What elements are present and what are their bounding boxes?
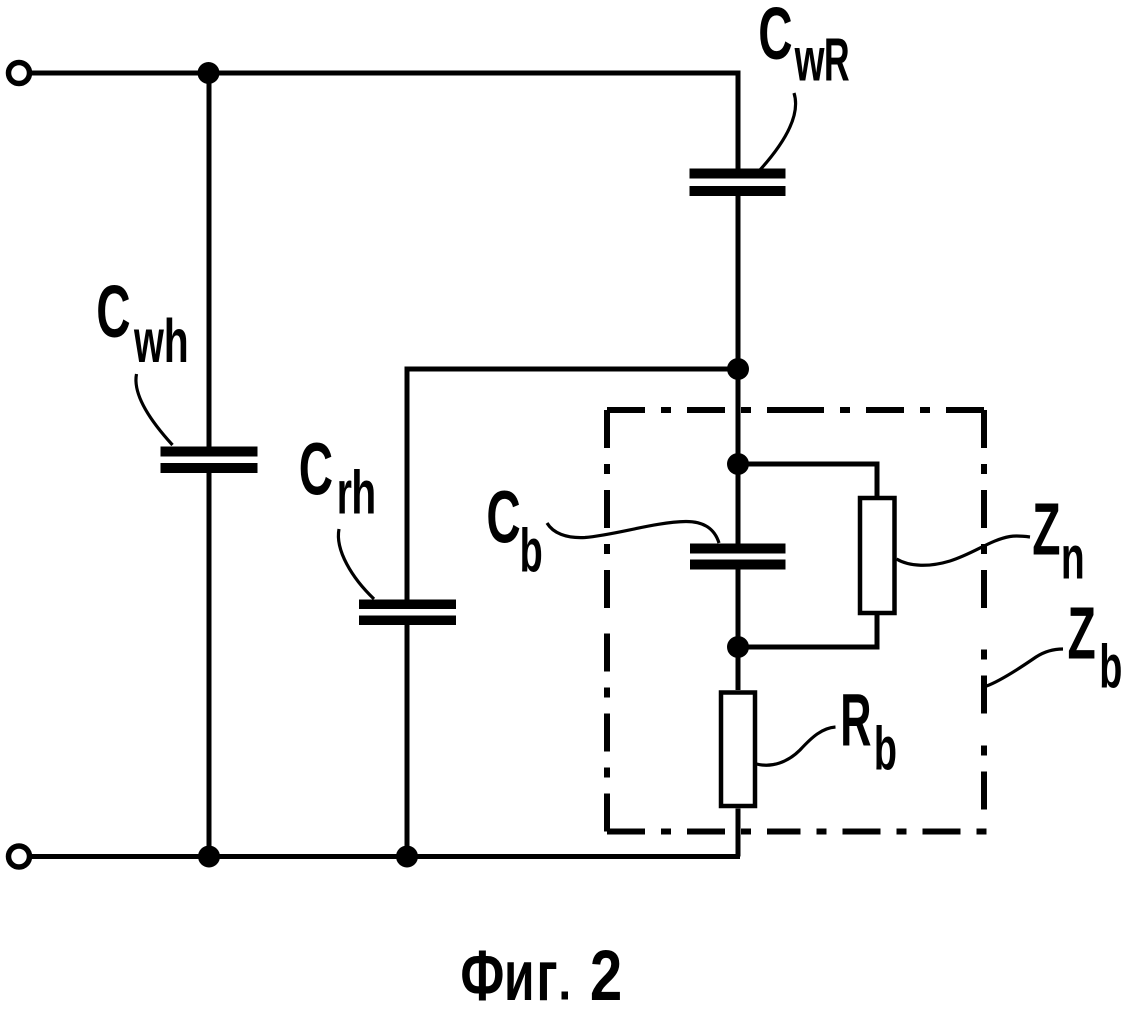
leader C_b bbox=[547, 522, 719, 544]
label C_wh bbox=[96, 272, 130, 354]
leader C_wh bbox=[136, 374, 173, 445]
wire top rail bbox=[32, 71, 738, 76]
label Z_n bbox=[1032, 488, 1060, 571]
svg-text:C: C bbox=[96, 272, 130, 354]
svg-text:n: n bbox=[1061, 524, 1085, 592]
node C junction dot bbox=[727, 636, 749, 658]
leader R_b bbox=[757, 727, 836, 765]
leader C_wR bbox=[759, 93, 796, 171]
svg-text:C: C bbox=[299, 429, 333, 511]
svg-text:и: и bbox=[504, 936, 535, 1010]
label Z_b bbox=[1068, 593, 1096, 676]
leader C_rh bbox=[338, 529, 374, 599]
wire C_wh branch upper bbox=[207, 73, 212, 447]
wire node B to Z_n top bbox=[738, 464, 877, 496]
svg-text:h: h bbox=[164, 308, 189, 376]
wire C_wh branch lower bbox=[207, 473, 212, 857]
svg-text:w: w bbox=[794, 26, 825, 94]
terminal bottom-left bbox=[9, 846, 30, 867]
resistor R_b body bbox=[721, 693, 755, 807]
capacitor C_wh bbox=[161, 447, 258, 474]
node B junction dot bbox=[727, 453, 749, 475]
svg-text:w: w bbox=[133, 307, 164, 375]
capacitor C_rh bbox=[359, 600, 456, 626]
wire Z_n bottom to node C bbox=[738, 615, 877, 647]
svg-text:R: R bbox=[824, 26, 850, 94]
node bottom-mid junction dot bbox=[396, 846, 418, 868]
svg-text:r: r bbox=[337, 459, 352, 527]
resistor Z_n body bbox=[860, 498, 895, 613]
svg-text:R: R bbox=[840, 678, 871, 761]
wire C_rh branch and top link to node A bbox=[405, 625, 410, 857]
svg-text:2: 2 bbox=[590, 935, 622, 1010]
label R_b bbox=[840, 678, 871, 761]
svg-text:C: C bbox=[758, 0, 792, 76]
svg-text:b: b bbox=[1099, 632, 1122, 701]
svg-text:C: C bbox=[486, 477, 520, 559]
wire C_wR lower to C_b top bbox=[736, 196, 741, 544]
svg-text:Z: Z bbox=[1032, 488, 1060, 571]
node bottom-left junction dot bbox=[198, 846, 220, 868]
svg-text:b: b bbox=[520, 516, 543, 585]
wire C_wR branch upper bbox=[736, 71, 741, 169]
node A junction dot bbox=[727, 358, 749, 380]
leader Z_n bbox=[897, 536, 1031, 565]
leader Z_b bbox=[987, 649, 1064, 686]
node top junction dot bbox=[198, 62, 220, 84]
label C_rh bbox=[299, 429, 333, 511]
svg-text:г: г bbox=[536, 937, 557, 1010]
terminal top-left bbox=[9, 63, 30, 84]
capacitor C_b bbox=[690, 544, 786, 570]
svg-text:b: b bbox=[874, 714, 897, 783]
caption Фиг. 2 bbox=[460, 937, 504, 1010]
capacitor C_wR bbox=[690, 169, 786, 197]
wire bottom rail bbox=[32, 854, 740, 859]
boundary box Z_b (dash-dot) bbox=[607, 410, 987, 832]
label C_b bbox=[486, 477, 520, 559]
label C_wR bbox=[758, 0, 792, 76]
svg-text:h: h bbox=[351, 459, 376, 527]
svg-text:Z: Z bbox=[1068, 593, 1096, 676]
svg-text:Ф: Ф bbox=[460, 937, 504, 1010]
wire C_b bottom to R_b top bbox=[736, 570, 741, 691]
wire R_b bottom to bottom rail bbox=[736, 809, 741, 857]
